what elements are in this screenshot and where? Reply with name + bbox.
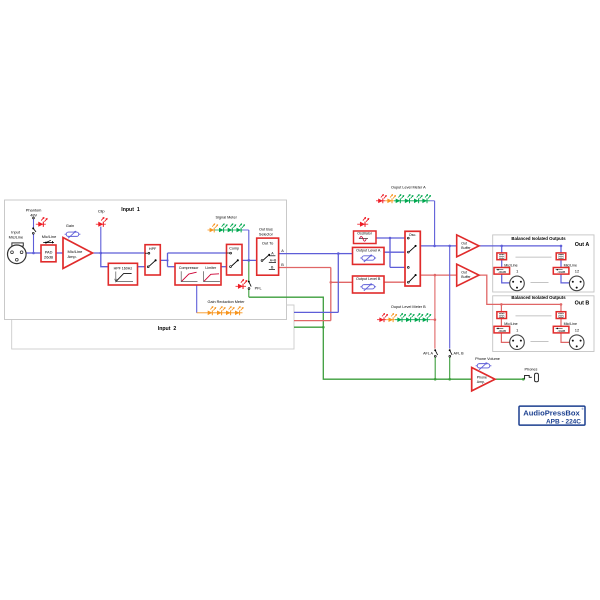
svg-text:Phone Volume: Phone Volume bbox=[475, 357, 500, 361]
svg-text:Out B: Out B bbox=[575, 301, 590, 307]
svg-text:Out A: Out A bbox=[575, 242, 590, 248]
svg-text:Mic/Line: Mic/Line bbox=[504, 322, 517, 326]
svg-text:Output Level B: Output Level B bbox=[356, 277, 381, 281]
svg-text:Input 2: Input 2 bbox=[158, 326, 177, 332]
svg-text:26dB: 26dB bbox=[44, 255, 53, 260]
svg-text:HPF: HPF bbox=[149, 247, 157, 251]
svg-text:-30dB: -30dB bbox=[557, 329, 565, 333]
svg-text:Gain: Gain bbox=[66, 223, 74, 228]
svg-text:Output Level A: Output Level A bbox=[356, 248, 381, 252]
svg-text:Out: Out bbox=[461, 241, 467, 245]
svg-text:A: A bbox=[281, 249, 284, 253]
svg-text:B: B bbox=[281, 263, 284, 267]
svg-text:Input 1: Input 1 bbox=[121, 207, 140, 213]
svg-text:-30dB: -30dB bbox=[557, 270, 565, 274]
svg-text:A+B: A+B bbox=[270, 258, 277, 262]
svg-text:Phone: Phone bbox=[477, 375, 487, 379]
svg-text:AFL B: AFL B bbox=[454, 352, 465, 356]
svg-text:Mic/Line: Mic/Line bbox=[504, 263, 517, 267]
svg-text:Gain Reduction Meter: Gain Reduction Meter bbox=[208, 300, 246, 304]
svg-text:Out Bus: Out Bus bbox=[259, 228, 273, 232]
svg-text:Ouput Level Meter A: Ouput Level Meter A bbox=[391, 186, 426, 190]
svg-text:Limiter: Limiter bbox=[205, 266, 217, 270]
svg-text:Comp: Comp bbox=[229, 247, 239, 251]
svg-text:Out To: Out To bbox=[262, 241, 273, 246]
svg-text:Mic/Line: Mic/Line bbox=[9, 234, 24, 239]
svg-text:Signal Meter: Signal Meter bbox=[216, 215, 238, 219]
svg-text:Amp.: Amp. bbox=[477, 380, 485, 384]
svg-text:Mic/Line: Mic/Line bbox=[564, 322, 577, 326]
svg-text:AFL A: AFL A bbox=[423, 352, 433, 356]
svg-text:Oscillator: Oscillator bbox=[357, 232, 372, 236]
svg-text:PFL: PFL bbox=[255, 286, 262, 290]
svg-text:12: 12 bbox=[575, 327, 580, 332]
svg-text:Phones: Phones bbox=[525, 367, 538, 371]
svg-text:Buffer: Buffer bbox=[461, 246, 471, 250]
svg-text:APB - 224C: APB - 224C bbox=[546, 418, 581, 425]
svg-text:Osc.: Osc. bbox=[409, 233, 417, 237]
svg-text:Compressor: Compressor bbox=[179, 266, 199, 270]
svg-text:12: 12 bbox=[575, 269, 580, 274]
svg-text:Amp.: Amp. bbox=[68, 254, 77, 259]
svg-text:Balanced Isolated Outputs: Balanced Isolated Outputs bbox=[511, 295, 566, 300]
svg-text:Mic/Line: Mic/Line bbox=[42, 234, 57, 239]
svg-text:AudioPressBox: AudioPressBox bbox=[523, 409, 580, 418]
svg-text:Ouput Level Meter B: Ouput Level Meter B bbox=[391, 305, 426, 309]
svg-text:Balanced Isolated Outputs: Balanced Isolated Outputs bbox=[511, 236, 566, 241]
svg-text:Out: Out bbox=[461, 271, 467, 275]
svg-text:Selector: Selector bbox=[259, 232, 274, 236]
svg-text:HPF 160Hz: HPF 160Hz bbox=[114, 266, 133, 270]
svg-text:Buffer: Buffer bbox=[461, 275, 471, 279]
svg-text:Mic/Line: Mic/Line bbox=[564, 263, 577, 267]
svg-text:48V: 48V bbox=[30, 212, 37, 217]
svg-text:Clip: Clip bbox=[98, 209, 105, 214]
svg-text:-30dB: -30dB bbox=[498, 270, 506, 274]
svg-text:-30dB: -30dB bbox=[498, 329, 506, 333]
